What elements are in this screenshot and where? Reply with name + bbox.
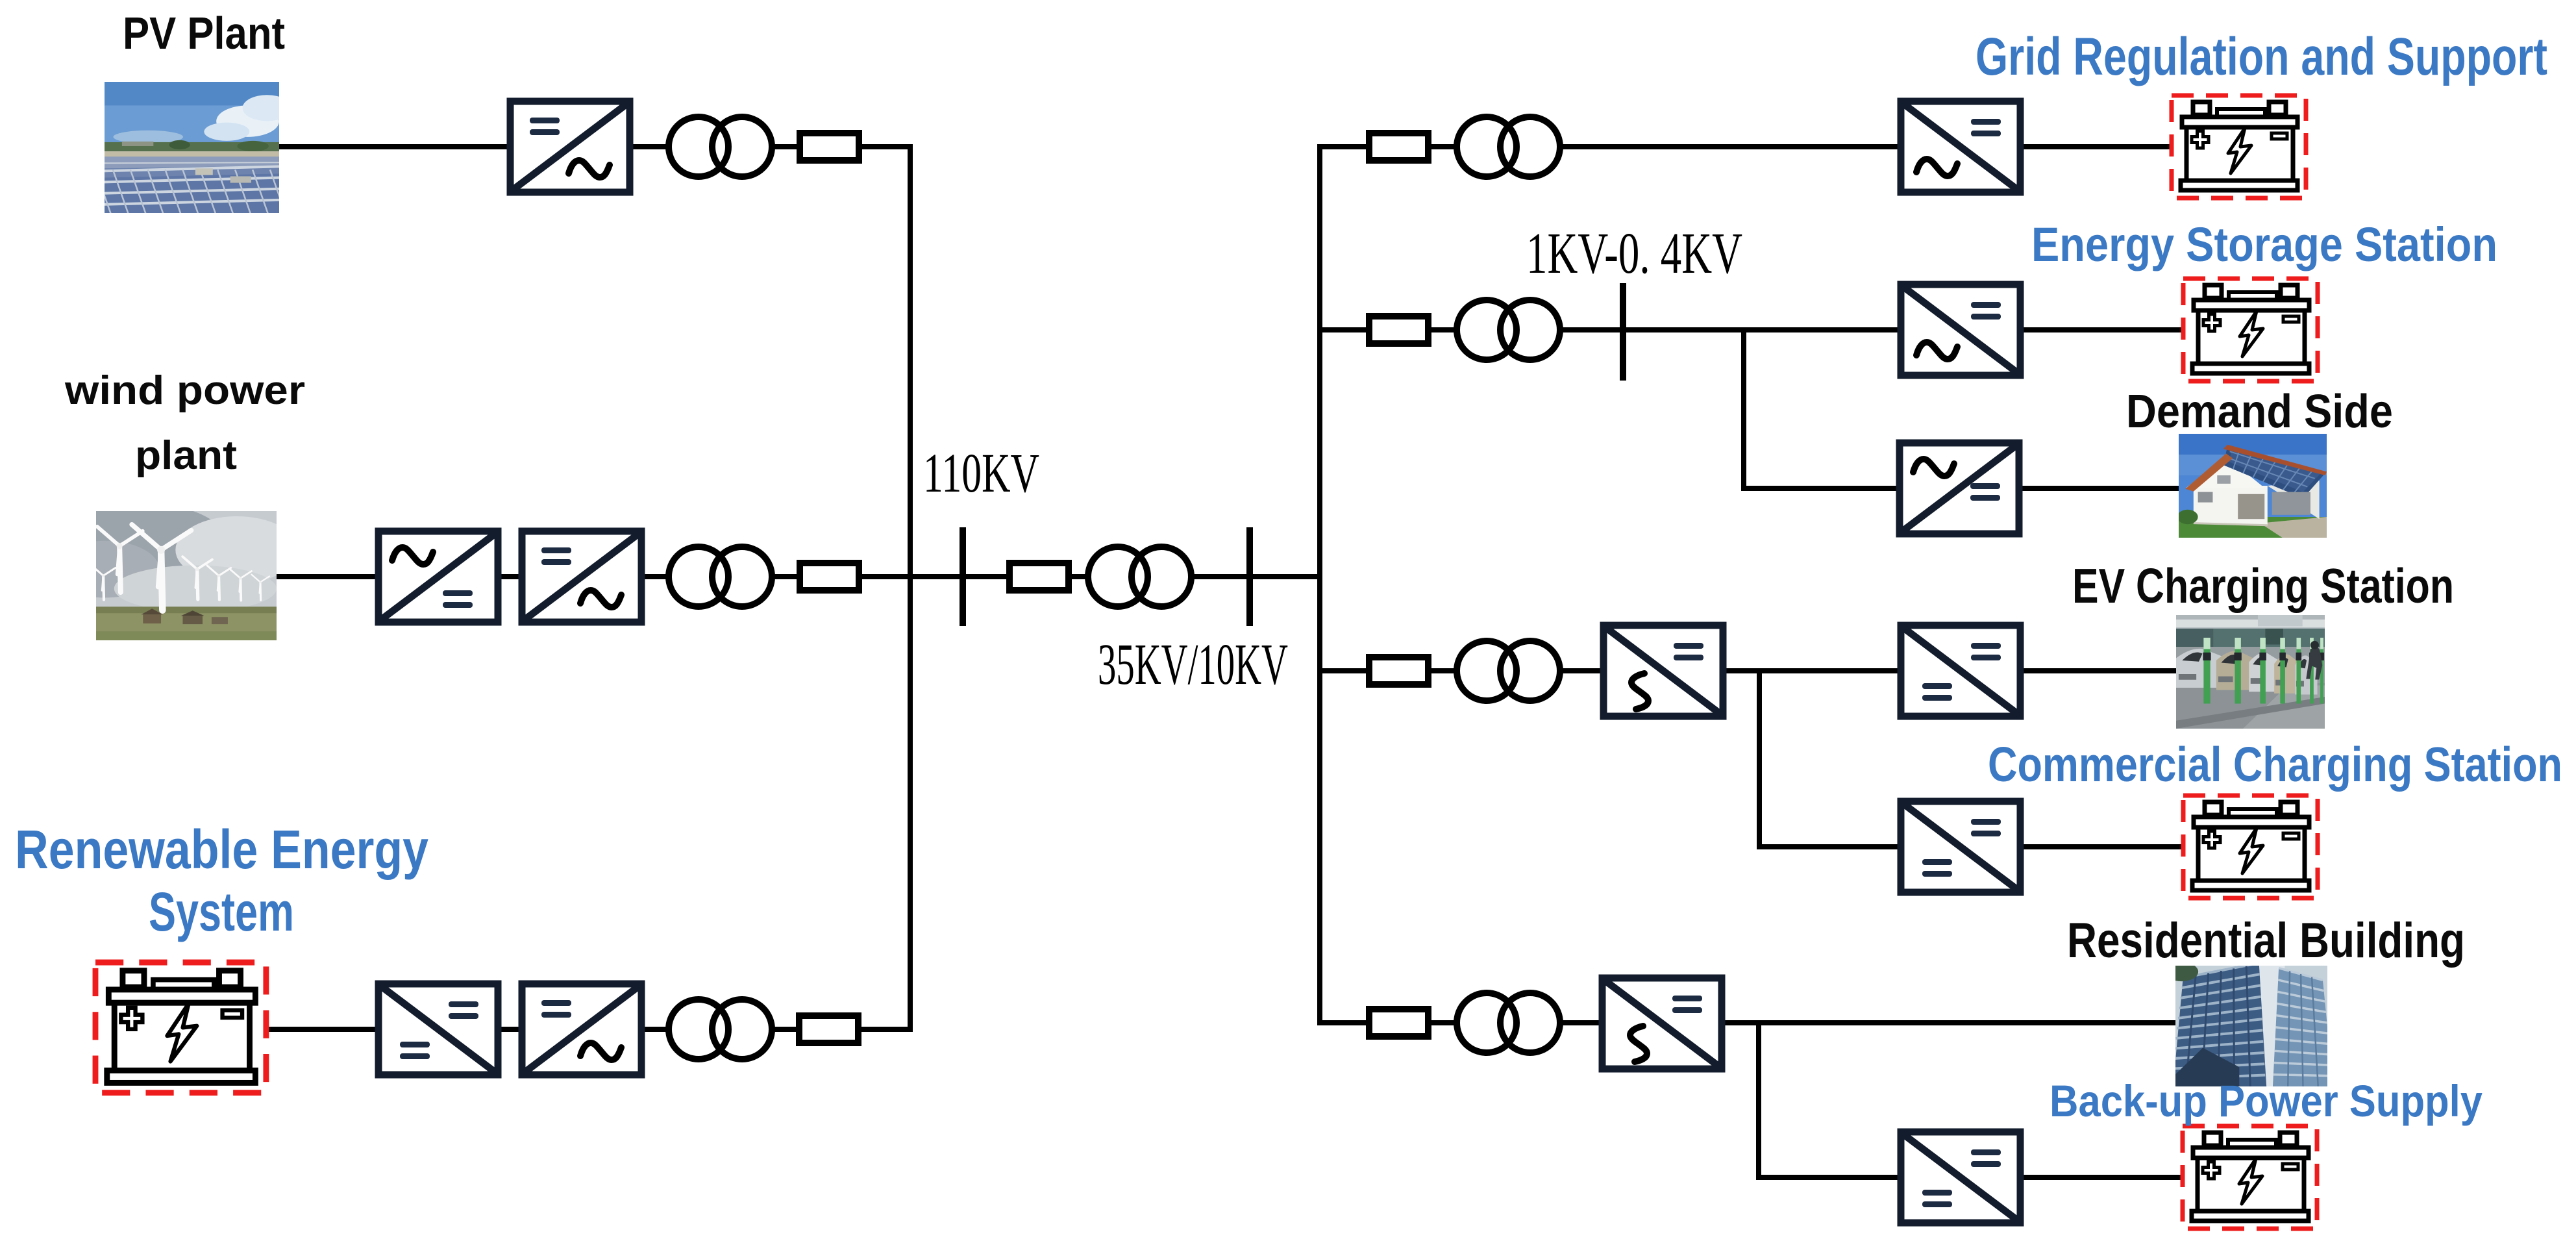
svg-text:wind power: wind power	[64, 368, 305, 413]
svg-text:Commercial Charging Station: Commercial Charging Station	[1988, 737, 2562, 792]
svg-text:Back-up Power Supply: Back-up Power Supply	[2050, 1076, 2483, 1126]
svg-text:Residential Building: Residential Building	[2067, 913, 2465, 968]
svg-text:Renewable Energy: Renewable Energy	[15, 819, 428, 880]
svg-text:Demand Side: Demand Side	[2126, 386, 2393, 438]
svg-text:1KV-0. 4KV: 1KV-0. 4KV	[1526, 221, 1742, 286]
svg-text:Energy Storage Station: Energy Storage Station	[2031, 218, 2497, 271]
svg-text:Grid Regulation and Support: Grid Regulation and Support	[1975, 27, 2547, 86]
svg-text:110KV: 110KV	[923, 442, 1039, 504]
svg-text:EV Charging Station: EV Charging Station	[2072, 558, 2454, 613]
svg-text:35KV/10KV: 35KV/10KV	[1098, 633, 1288, 697]
svg-text:PV Plant: PV Plant	[123, 8, 285, 58]
svg-text:plant: plant	[135, 433, 237, 478]
svg-text:System: System	[149, 881, 294, 942]
